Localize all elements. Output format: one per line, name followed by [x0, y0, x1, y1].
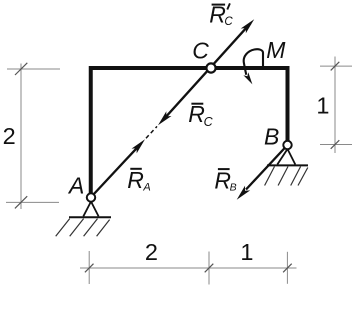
label R'_C with overbar (top) — [209, 2, 233, 29]
support ground line at A — [69, 216, 111, 218]
support triangle at A — [83, 202, 98, 217]
dimension left tick slashes — [15, 63, 27, 209]
reaction line R_A (solid segment from A) — [93, 147, 138, 195]
svg-text:1: 1 — [316, 92, 329, 118]
dimension bottom horizontal line — [80, 251, 297, 285]
dimension right tick slashes — [331, 62, 340, 149]
svg-text:A: A — [142, 182, 150, 194]
support hatching at A — [56, 219, 110, 237]
svg-text:C: C — [204, 115, 214, 129]
label R_A with overbar — [127, 167, 151, 193]
frame members — [91, 68, 288, 196]
svg-text:2: 2 — [145, 239, 158, 265]
dimension bottom tick slashes — [85, 264, 292, 273]
support triangle at B — [277, 149, 295, 165]
arrowhead R_A — [132, 139, 145, 153]
label R_B with overbar — [214, 168, 236, 194]
svg-text:1: 1 — [240, 239, 253, 265]
arrowhead R_B — [237, 186, 250, 200]
svg-text:2: 2 — [3, 123, 16, 149]
support ground line at B — [267, 164, 308, 166]
svg-text:M: M — [266, 37, 286, 63]
arrowhead of moment arc — [243, 72, 252, 84]
svg-text:C: C — [224, 16, 233, 28]
svg-text:R: R — [188, 101, 205, 127]
dimension right vertical line — [320, 57, 352, 154]
svg-text:R: R — [127, 167, 144, 193]
dashed segment of action line — [146, 126, 157, 138]
hinge circle C — [206, 63, 215, 72]
svg-text:R: R — [214, 168, 231, 194]
reaction arrow R_B — [246, 145, 288, 190]
svg-text:A: A — [67, 173, 84, 199]
reaction line R_C / R'_C (solid through C) — [165, 23, 251, 118]
svg-text:B: B — [264, 123, 279, 149]
arrowhead R_C (pointing down-left) — [158, 111, 171, 125]
arrowhead R'_C — [241, 19, 254, 33]
dimension left vertical line — [6, 64, 60, 210]
svg-text:B: B — [230, 182, 237, 194]
support hatching at B — [265, 167, 308, 186]
moment arc M — [244, 49, 263, 75]
svg-text:C: C — [192, 38, 209, 64]
hinge circle B — [283, 141, 291, 149]
label R_C with overbar (middle) — [188, 101, 213, 129]
hinge circle A — [87, 193, 95, 201]
